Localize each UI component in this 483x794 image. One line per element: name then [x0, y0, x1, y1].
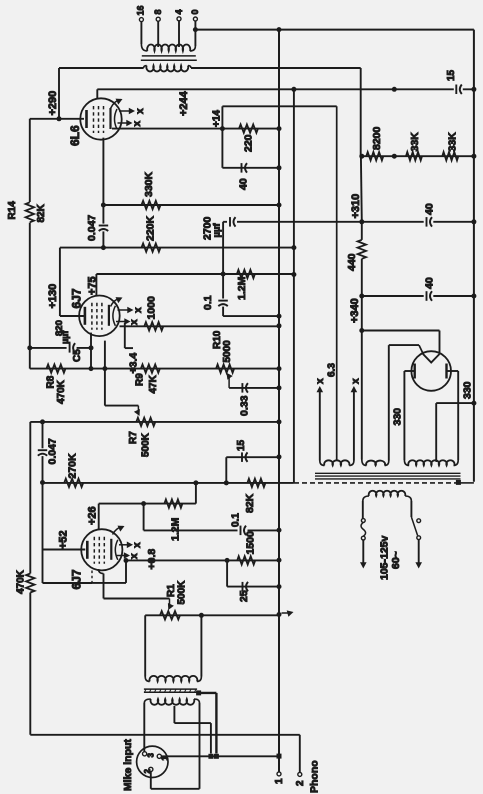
resistor 8200	[366, 126, 383, 160]
svg-text:33K: 33K	[409, 132, 421, 152]
label +3.4	[127, 353, 139, 374]
wire: +244 plate bus	[97, 88, 474, 90]
label +340	[349, 298, 361, 323]
svg-text:82K: 82K	[244, 493, 256, 513]
svg-text:330: 330	[391, 408, 403, 426]
svg-text:220: 220	[242, 134, 254, 152]
resistor R14 82K	[7, 201, 47, 223]
label +130	[47, 284, 59, 309]
svg-text:x: x	[129, 553, 140, 559]
wire: V3 cathode tab lead	[99, 569, 170, 599]
wire: primary left to fuse	[362, 501, 364, 519]
svg-text:40: 40	[423, 203, 435, 215]
svg-text:6J7: 6J7	[69, 288, 83, 308]
R10 wiper arm to 0.33	[227, 373, 280, 388]
node: +310 row at right rail	[471, 219, 476, 224]
svg-text:33K: 33K	[446, 132, 458, 152]
svg-text:1.2M: 1.2M	[236, 276, 248, 300]
wire: 6L6 grid lead to +244 bus	[96, 89, 98, 98]
svg-text:15: 15	[236, 439, 247, 451]
node: R10 right at ground rail	[277, 366, 282, 371]
capacitor 0.33	[238, 383, 250, 416]
label 330 (left HV)	[391, 408, 403, 426]
svg-text:x: x	[132, 542, 143, 548]
resistor 470K (left rail)	[16, 569, 35, 594]
wire: heater center-tap rail	[336, 106, 338, 459]
label +26	[87, 506, 99, 525]
svg-text:x: x	[129, 319, 140, 325]
node: 0-tap junction to ground bus	[193, 27, 198, 32]
wire: 8200/33K/33K bleeder row	[362, 155, 474, 157]
node: R1 right / T2 secondary	[199, 613, 204, 618]
svg-text:470K: 470K	[56, 379, 67, 404]
node: 25uF drop	[225, 558, 230, 563]
node: +244 drop at bleeder row	[392, 154, 397, 159]
label 105-125v	[378, 535, 390, 580]
svg-text:8: 8	[153, 9, 163, 14]
wire: center ground rail	[278, 30, 280, 772]
svg-text:R14: R14	[7, 201, 18, 220]
rectifier tube V4	[411, 351, 451, 391]
heater arrow X lower on V2	[116, 318, 140, 325]
wire: V2 suppressor lead	[90, 333, 92, 369]
svg-text:6L6: 6L6	[68, 125, 82, 146]
potentiometer R10 5000	[212, 330, 234, 373]
node: +244 bus at right rail	[471, 87, 476, 92]
wire: T2 primary right lead to mike pin 2 loop	[199, 703, 201, 789]
node: 15uF at ground rail	[277, 454, 282, 459]
svg-text:270K: 270K	[66, 453, 78, 479]
svg-text:1: 1	[274, 778, 285, 784]
tube V1 6L6	[80, 98, 121, 139]
capacitor 40uF cathode bypass	[237, 163, 249, 190]
node: screen-feed drop on +244 bus	[291, 87, 296, 92]
wire: R1 row	[145, 614, 279, 616]
capacitor 0.047 coupling (to V3 stage)	[38, 422, 59, 483]
svg-text:60~: 60~	[390, 551, 402, 569]
capacitor 2700 uuF	[201, 216, 237, 240]
capacitor 15uF (V3 decoupling)	[226, 439, 279, 482]
wire: left rail upper section with R14	[29, 119, 31, 369]
label 6.3	[327, 363, 338, 377]
wire: cathode bypass row	[222, 167, 279, 169]
node: +310 junction	[359, 219, 364, 224]
wire: R8/R9/R10 row	[30, 368, 279, 370]
wire: switch to AC line right	[415, 540, 422, 569]
svg-text:105-125v: 105-125v	[378, 535, 390, 580]
wire: left plate lead to HV winding	[404, 371, 414, 460]
wire: 1.2M up to 270K row	[195, 483, 197, 504]
svg-text:0.1: 0.1	[230, 513, 241, 527]
power switch	[411, 517, 420, 540]
svg-text:+310: +310	[350, 194, 362, 219]
capacitor 40uF filter (+310)	[423, 203, 435, 227]
svg-text:40: 40	[237, 178, 249, 190]
label 6J7 (V3)	[69, 569, 83, 589]
node: B+ at 8200 row	[359, 154, 364, 159]
wire: 1.2M row to V2 grid	[96, 274, 294, 296]
node: 0.33 at ground rail	[277, 385, 282, 390]
wire: V2 cathode lead	[104, 341, 106, 406]
mike pin 2	[143, 767, 153, 773]
node: 1.2M at screen rail	[291, 272, 296, 277]
wire: mike pin 1 to ground rail	[161, 755, 279, 757]
grid-cap arrow on V3	[113, 526, 125, 535]
svg-text:0.33: 0.33	[238, 395, 250, 416]
heater arrow X lower on V3	[116, 552, 140, 559]
label +14	[212, 110, 223, 127]
tube V2 6J7	[79, 296, 120, 337]
node: +340 junction	[359, 294, 364, 299]
wire: V2 plate row	[120, 325, 280, 327]
phono terminal 2	[295, 772, 306, 786]
node: grid column at 330K row	[101, 203, 106, 208]
input transformer T2 core with shield	[144, 689, 197, 692]
node: T2 shield junction (square)	[196, 690, 201, 695]
capacitor 15uF decoupling (top right)	[446, 69, 463, 94]
capacitor 25uF cathode bypass	[227, 560, 279, 602]
resistor 1000 ohm	[144, 296, 163, 331]
wire: cathode block top link to heater CT rail	[222, 106, 336, 168]
wire: 220K row / +130 row	[60, 247, 294, 249]
node: 0.1 at ground rail	[277, 528, 282, 533]
node: primary-lead junction on +290 row	[57, 116, 62, 121]
wire: T2 primary left lead to mike pin 3	[143, 703, 145, 752]
svg-text:x: x	[315, 378, 326, 384]
resistor 330K grid leak	[142, 171, 161, 209]
grid-cap arrow on V2	[111, 297, 123, 306]
svg-text:Mike input: Mike input	[122, 739, 134, 791]
wire: left rail lower section with 470K	[29, 422, 31, 735]
potentiometer R7 500K	[128, 418, 155, 457]
chassis ground arrow	[282, 610, 294, 616]
wire: arm down to R1 wiper	[168, 599, 174, 611]
wire: V3 grid top lead	[98, 504, 100, 530]
T3 primary winding	[363, 491, 412, 501]
resistor 220 ohm cathode bias	[239, 124, 258, 152]
node: 25uF at ground rail	[277, 584, 282, 589]
resistor 440 ohm filter	[346, 240, 366, 271]
svg-text:6J7: 6J7	[69, 569, 83, 589]
svg-text:R8: R8	[46, 375, 57, 388]
wire: right plate lead to HV winding	[447, 371, 459, 460]
T3 heater winding 6.3V	[320, 460, 354, 465]
resistor 82K	[244, 479, 266, 513]
svg-text:+130: +130	[47, 284, 59, 309]
svg-text:+244: +244	[178, 90, 190, 116]
wire: mike pin 2 bottom loop	[151, 772, 200, 789]
output transformer T1 secondary tap terminal 16	[136, 5, 146, 44]
node: 220 right end on ground rail	[277, 126, 282, 131]
wire: 6L6 cathode row (+14)	[112, 128, 279, 130]
wire: T2 primary tap lead	[174, 706, 211, 754]
wire: HV center tap to ground rail	[436, 403, 474, 460]
node: cathode at R8/R9 row	[102, 366, 107, 371]
svg-text:16: 16	[136, 5, 146, 15]
svg-text:0.047: 0.047	[86, 215, 98, 241]
svg-text:x: x	[133, 307, 144, 313]
capacitor 40uF filter (+340)	[423, 277, 435, 301]
node: mike/phono ground junction (square)	[277, 754, 282, 759]
wire: tone column	[222, 222, 224, 299]
svg-text:5000: 5000	[222, 340, 233, 363]
output transformer T1 core	[141, 56, 197, 60]
terminal square (mike shield b)	[214, 754, 219, 759]
mike input connector circle	[137, 746, 168, 777]
wire: 270K / 82K row	[43, 482, 294, 484]
output transformer T1 secondary winding	[141, 44, 195, 51]
wire: +52 feed	[43, 483, 93, 584]
svg-text:+0.8: +0.8	[146, 549, 158, 570]
node: 8200 feed drop on +244 bus	[392, 87, 397, 92]
wire: T1 primary right lead to B+ rail	[191, 67, 361, 69]
resistor R9 47K	[135, 364, 160, 393]
svg-text:470K: 470K	[16, 569, 27, 594]
heater arrow X upper on 6L6	[119, 108, 146, 115]
svg-text:x: x	[132, 121, 143, 127]
svg-text:8200: 8200	[371, 126, 383, 150]
wire: ground bus from speaker 0 tap (top)	[195, 29, 474, 31]
label +310	[350, 194, 362, 219]
node: tone column at 1.2M row	[221, 272, 226, 277]
label Phono	[308, 760, 320, 793]
node: C5 row at left rail	[27, 345, 32, 350]
svg-text:25: 25	[238, 590, 250, 602]
node: suppressor at R8/R9 row	[89, 366, 94, 371]
wire: screen distribution rail	[293, 89, 295, 483]
node: 15uF drop on row	[224, 480, 229, 485]
mike pin 1	[157, 754, 169, 760]
label +75	[87, 276, 99, 295]
output transformer T1 secondary tap terminal 0	[190, 9, 200, 46]
input transformer T2 primary winding	[144, 699, 199, 705]
heater winding lead X right	[351, 378, 362, 461]
heater winding lead X left	[315, 378, 326, 461]
node: bleeder row at right rail	[471, 154, 476, 159]
node: 1000 row at ground rail	[277, 323, 282, 328]
capacitor C5 820 uuF	[54, 320, 83, 362]
phono terminal 1	[274, 759, 285, 784]
wire: 0.1 row (V3 grid)	[144, 504, 279, 531]
wire: 2700uuF / +310 row	[223, 221, 474, 223]
capacitor 0.1 (V3)	[230, 513, 247, 536]
svg-text:µµf: µµf	[60, 330, 70, 344]
wire: +130 link to V2 screen	[60, 248, 84, 316]
capacitor C5 820uuF row	[30, 347, 91, 349]
wire: 330K row	[103, 204, 279, 206]
resistor 33K (second)	[442, 132, 458, 161]
terminal square (mike shield a)	[208, 754, 213, 759]
wire: right-edge ground rail	[473, 30, 475, 482]
label 6L6	[68, 125, 82, 146]
node: C5 row at suppressor	[89, 345, 94, 350]
wire: +340 row	[362, 295, 474, 297]
resistor R8 470K	[46, 364, 68, 404]
svg-text:2: 2	[295, 780, 306, 786]
output transformer T1 primary winding	[144, 66, 191, 72]
wire: T2 secondary left side	[144, 615, 146, 676]
wire: primary right to switch	[410, 501, 412, 517]
resistor 33K (first)	[406, 132, 422, 161]
svg-text:Phono: Phono	[308, 760, 320, 793]
svg-text:1000: 1000	[145, 296, 157, 320]
svg-text:1500: 1500	[244, 531, 256, 555]
svg-text:x: x	[135, 108, 146, 114]
svg-text:330: 330	[461, 381, 473, 399]
node: 0.1 at ground rail	[277, 314, 282, 319]
T3 electrostatic shield (dashed) to ground	[294, 480, 474, 485]
svg-text:0.047: 0.047	[46, 438, 58, 464]
wire: rectifier filament feed	[362, 331, 440, 353]
node: 330K at ground rail	[277, 203, 282, 208]
svg-text:82K: 82K	[36, 203, 47, 222]
svg-text:R9: R9	[135, 373, 146, 386]
wire: R7 row	[30, 421, 279, 423]
wire: cathode riser to +0.8 row	[125, 561, 127, 583]
svg-text:47K: 47K	[148, 374, 159, 393]
heater arrow X lower on 6L6	[118, 120, 144, 127]
svg-text:4: 4	[174, 9, 184, 14]
svg-text:15: 15	[446, 69, 457, 81]
wire: V2 cathode to R7 wiper	[105, 406, 140, 416]
output transformer T1 secondary tap terminal 4	[174, 9, 184, 47]
capacitor 0.1 tone	[202, 295, 279, 316]
node: grid column at 220K row	[101, 245, 106, 250]
output transformer T1 secondary tap terminal 8	[153, 9, 163, 47]
svg-text:+52: +52	[58, 530, 70, 549]
svg-text:µµf: µµf	[211, 223, 222, 238]
node: +0.8 row start	[124, 558, 129, 563]
svg-text:220K: 220K	[144, 215, 156, 241]
wire: V3 grid row	[99, 503, 196, 505]
svg-text:3: 3	[146, 753, 155, 758]
label +52	[58, 530, 70, 549]
svg-text:440: 440	[346, 253, 358, 271]
node: bypass row on ground rail	[277, 165, 282, 170]
wire: 6L6 grid column	[102, 138, 104, 205]
node: 1500 at ground rail	[277, 558, 282, 563]
label 330 (right HV)	[461, 381, 473, 399]
wire: B+ rail (+310/+340 column)	[361, 68, 362, 460]
label Mike input	[122, 739, 134, 791]
node: +14 junction	[220, 126, 225, 131]
label +290	[47, 91, 59, 116]
heater arrow X upper on V2	[118, 307, 145, 314]
T3 HV winding 330-0-330	[404, 460, 458, 466]
svg-text:+26: +26	[87, 506, 99, 525]
svg-text:R1: R1	[166, 584, 177, 597]
svg-text:6.3: 6.3	[327, 363, 338, 377]
tube V3 6J7	[81, 529, 122, 570]
wire: +0.8 / 1500 row	[126, 559, 279, 561]
resistor 1.2M (V3)	[164, 499, 182, 541]
resistor 220K V2 plate load	[142, 215, 161, 251]
wire: rectifier filament left to 5V winding	[389, 345, 424, 460]
node: HV CT at ground rail	[471, 401, 476, 406]
T3 core	[315, 473, 461, 479]
wire: V2 suppressor stub (+3.4)	[125, 323, 133, 348]
mike pin 3	[143, 752, 156, 758]
wire: V3 suppressor link	[92, 571, 126, 584]
node: 0.047 tap on R7 row	[40, 419, 45, 424]
heater arrow X upper on V3	[119, 542, 143, 549]
node: R1 row at ground rail	[277, 612, 282, 617]
svg-text:1.2M: 1.2M	[169, 517, 181, 541]
T3 5V rectifier winding	[362, 460, 389, 466]
node: R7 row at ground rail	[277, 419, 282, 424]
svg-text:500K: 500K	[141, 432, 152, 457]
label +0.8	[146, 549, 158, 570]
wire: fuse to AC line left	[360, 540, 367, 569]
wire: phono 2 drop	[299, 735, 301, 773]
wire: T2 secondary right side	[200, 615, 202, 676]
wire: shield to mike ground terminal	[199, 693, 217, 754]
svg-text:x: x	[351, 378, 362, 384]
grid-cap arrow on 6L6	[111, 99, 123, 109]
fuse	[361, 519, 366, 540]
svg-text:0: 0	[190, 9, 200, 14]
resistor 1500 cathode bias	[237, 531, 256, 565]
svg-text:+340: +340	[349, 298, 361, 323]
svg-text:40: 40	[423, 277, 435, 289]
svg-text:R7: R7	[128, 431, 139, 444]
svg-text:+75: +75	[87, 276, 99, 295]
svg-text:330K: 330K	[143, 171, 155, 197]
input transformer T2 secondary winding	[145, 676, 201, 682]
svg-text:+14: +14	[212, 110, 223, 127]
capacitor 0.047 coupling (V2 plate to 6L6 grid)	[86, 205, 108, 248]
resistor 1.2M	[236, 270, 255, 300]
svg-text:+290: +290	[47, 91, 59, 116]
node: center rail on top bus	[277, 27, 282, 32]
node: 1.2M drop on row	[193, 480, 198, 485]
label 60 cycles	[390, 551, 402, 569]
label +244	[178, 90, 190, 116]
potentiometer R1 500K volume	[160, 580, 188, 620]
resistor 270K	[64, 453, 83, 487]
svg-text:+3.4: +3.4	[127, 353, 139, 374]
wire: T1 primary left lead to +290 node	[59, 68, 144, 119]
node: filament feed at B+ rail	[359, 328, 364, 333]
wire: bottom ground bus	[30, 734, 300, 736]
svg-text:0.1: 0.1	[202, 295, 214, 310]
svg-text:C5: C5	[72, 349, 83, 362]
label 6J7 (V2)	[69, 288, 83, 308]
node: grid row split	[141, 501, 146, 506]
node: +340 row at right rail	[471, 294, 476, 299]
wire: +290 feed row	[30, 118, 84, 120]
svg-text:500K: 500K	[177, 580, 188, 605]
node: 0.047 at 270K row	[40, 480, 45, 485]
node: 220K row at screen rail	[291, 245, 296, 250]
